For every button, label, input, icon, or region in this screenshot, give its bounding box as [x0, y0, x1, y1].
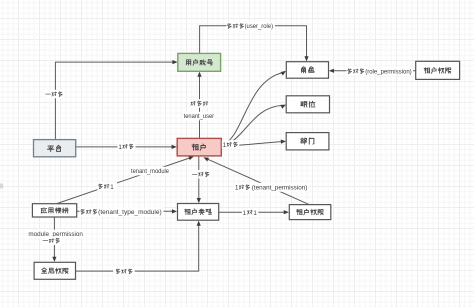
wire: tenant to user-account vertical — [197, 72, 201, 139]
svg-text:(tenant_type_module): (tenant_type_module) — [98, 209, 162, 216]
label 多对多 (role_permission) — [347, 67, 414, 76]
label 1对1 — [242, 208, 258, 217]
label tenant_user — [183, 112, 216, 121]
wire: tenant-permission-top to role (role_permission) — [329, 69, 416, 73]
entity 全局权限 (global permission) — [34, 262, 75, 279]
wire: global-permission elbow up to tenant-type — [76, 221, 201, 272]
svg-text:(tenant_permission): (tenant_permission) — [252, 185, 307, 192]
wire: platform to tenant horizontal — [76, 145, 177, 149]
label 一对多 (platform-account) — [45, 90, 65, 99]
wire: tenant-type to tenant vertical — [197, 156, 201, 203]
entity 平台 (platform) — [34, 140, 76, 157]
entity 应用模块 (application module) — [32, 204, 76, 217]
svg-text:1: 1 — [253, 210, 257, 217]
entity 职位 (position) — [286, 96, 329, 113]
svg-text:tenant_module: tenant_module — [131, 168, 169, 175]
svg-text:1: 1 — [118, 144, 122, 151]
label 多对多 (global-permission line) — [113, 267, 135, 276]
entity 租户类型 (tenant type) — [178, 204, 219, 221]
label 一对多 (module_permission line) — [42, 236, 62, 245]
wire: app-module down to global-permission (module_permission) — [52, 217, 56, 262]
label 1对多 (platform-tenant) — [118, 142, 136, 151]
wire: tenant-type to tenant-permission-bottom (1to1) — [219, 210, 289, 214]
label 多对多(user_role) — [227, 22, 276, 31]
entity 用户账号 (user account) — [178, 53, 221, 71]
wire: platform top-left elbow to user-account — [55, 60, 177, 140]
label 一对多 (tenant-type vertical) — [191, 170, 211, 179]
wire: app-module diagonal to tenant (tenant_module) — [57, 156, 194, 203]
wire: app-module to tenant-type (tenant_type_module) — [77, 209, 177, 213]
label 多对多 (tenant_type_module) — [80, 207, 164, 216]
svg-text:tenant_user: tenant_user — [184, 113, 215, 120]
label 1对多 (tenant-role fan) — [222, 140, 240, 149]
svg-text:1: 1 — [243, 210, 247, 217]
entity 部门 (department) — [286, 133, 329, 150]
node: edge clip mark at left border — [0, 184, 3, 189]
wire: tenant curve to role — [222, 71, 287, 146]
svg-text:1: 1 — [235, 185, 239, 192]
label tenant_module — [130, 167, 170, 176]
svg-text:1: 1 — [223, 142, 227, 149]
entity 角色 (role) — [286, 62, 328, 78]
entity 租户 (tenant) — [177, 138, 221, 156]
entity 租户权限 bottom (tenant permission) — [289, 205, 331, 220]
svg-text:(role_permission): (role_permission) — [365, 68, 412, 75]
svg-text:1: 1 — [110, 184, 114, 191]
label module_permission — [28, 230, 85, 239]
entity 租户权限 top-right (tenant permission) — [416, 61, 460, 79]
label 1对多 (tenant_permission) — [234, 183, 308, 192]
wire: tenant-permission-bottom diagonal to tenant (tenant_permission) — [203, 157, 308, 204]
wire: tenant curve to position — [222, 105, 287, 146]
wire: tenant curve to department — [222, 140, 287, 147]
wire: user-account top elbow to role (user_role) — [200, 26, 309, 62]
svg-text:(user_role): (user_role) — [245, 23, 274, 30]
label 对多对 (tenant_user) — [189, 99, 210, 108]
label 多对1 — [98, 182, 118, 191]
